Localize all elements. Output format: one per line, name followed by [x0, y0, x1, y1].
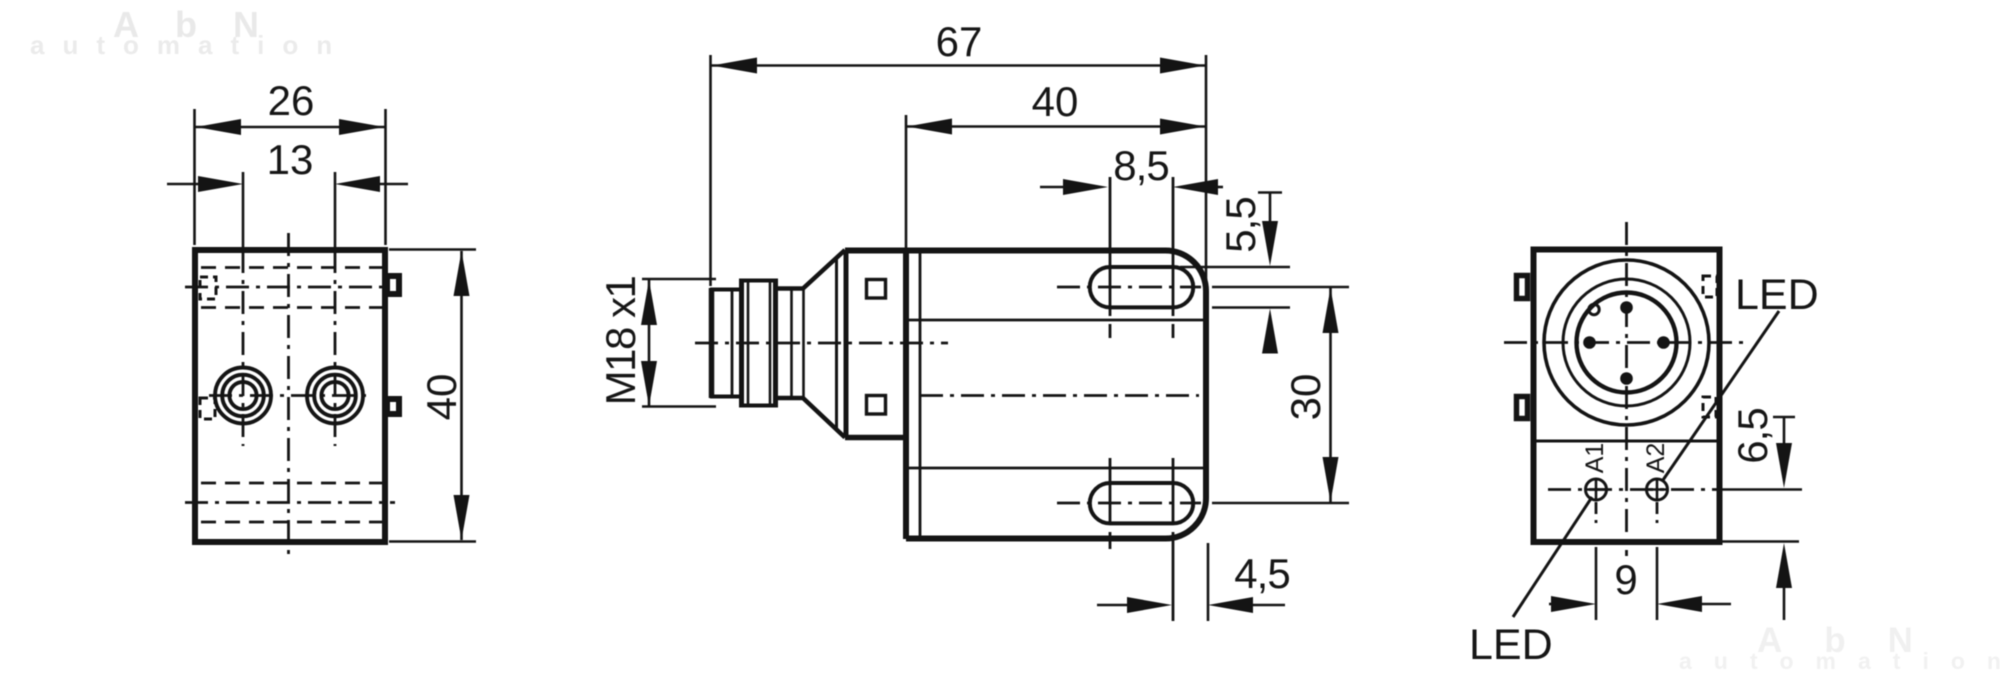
- rear view divider line: [1536, 440, 1717, 443]
- dimension 6,5: [1722, 408, 1799, 620]
- svg-text:5,5: 5,5: [1217, 197, 1264, 252]
- plate square hole lower: [867, 396, 886, 415]
- dimension 30: [1212, 287, 1349, 503]
- dimension 9: [1549, 547, 1731, 620]
- watermark top-left AbN: [30, 4, 350, 60]
- connector pins: [1583, 301, 1670, 385]
- dimension 13: [167, 136, 408, 192]
- top slot horizontal centerline: [1057, 286, 1201, 289]
- rear view tab upper-left: [1517, 276, 1528, 299]
- dimension 40 front view: [389, 250, 476, 542]
- M18 axis centerline: [695, 342, 948, 345]
- svg-text:LED: LED: [1469, 621, 1553, 669]
- main body inner vertical line: [919, 253, 922, 536]
- svg-text:40: 40: [418, 374, 465, 421]
- svg-text:A1: A1: [1581, 443, 1609, 474]
- front view right hole centerline vertical: [334, 172, 337, 250]
- main body feature line lower: [909, 467, 1204, 470]
- plate square hole upper: [867, 280, 886, 299]
- connector thread section: [739, 280, 778, 406]
- front view body outline: [195, 250, 385, 542]
- dimension M18 x1: [597, 276, 716, 406]
- svg-text:26: 26: [268, 77, 315, 124]
- dimension 26: [195, 77, 386, 245]
- svg-text:13: 13: [267, 136, 314, 183]
- LED pointer line A1: [1513, 497, 1592, 617]
- svg-text:M18 x1: M18 x1: [597, 276, 644, 405]
- front view hidden square hole lower-left: [200, 398, 215, 419]
- bottom mounting slot: [1090, 483, 1193, 523]
- front view vertical centerline: [287, 233, 290, 558]
- LED vertical centerlines: [1595, 502, 1598, 526]
- main body left edge: [903, 250, 909, 539]
- svg-text:LED: LED: [1735, 271, 1819, 319]
- front view right coil circles: [307, 368, 363, 424]
- front view hidden slot edge lines: [201, 268, 382, 523]
- connector keyway: [1589, 304, 1599, 314]
- rear view hidden square lower-right: [1703, 397, 1716, 417]
- front view left hole centerline vertical: [242, 172, 245, 250]
- svg-text:automation: automation: [30, 30, 350, 60]
- svg-text:A2: A2: [1642, 443, 1670, 474]
- dimension 5,5: [1180, 193, 1290, 354]
- top slot vertical centerlines: [1110, 177, 1173, 338]
- rear view horizontal centerline: [1504, 341, 1749, 344]
- connector plate bottom edge: [845, 435, 909, 441]
- svg-text:8,5: 8,5: [1113, 142, 1168, 189]
- svg-text:6,5: 6,5: [1729, 408, 1776, 463]
- rear connector circles: [1544, 260, 1709, 425]
- bottom slot vertical centerlines: [1110, 458, 1173, 621]
- front view left coil circles: [215, 368, 271, 424]
- front view mounting hole centerlines horizontal: [185, 286, 395, 289]
- connector face section: [710, 288, 741, 398]
- rear view vertical centerline: [1625, 222, 1628, 556]
- svg-text:9: 9: [1614, 556, 1637, 603]
- rear view hidden square upper-right: [1703, 276, 1717, 297]
- svg-text:automation: automation: [1679, 648, 2000, 674]
- svg-text:40: 40: [1032, 78, 1079, 125]
- rear view body outline: [1534, 250, 1720, 543]
- rear view tab lower-left: [1517, 397, 1528, 419]
- svg-text:30: 30: [1282, 374, 1329, 421]
- front view tab lower-right: [387, 399, 399, 414]
- front view sensing axis centerline horizontal: [209, 394, 371, 397]
- LED symbol A1: [1585, 479, 1607, 500]
- dimension 8,5: [1040, 142, 1223, 195]
- LED symbol A2: [1646, 479, 1668, 500]
- main body axis centerline: [920, 394, 1199, 397]
- connector plate edge: [844, 250, 849, 437]
- main body outline: [845, 250, 1206, 538]
- top mounting slot: [1090, 267, 1193, 307]
- watermark bottom-right AbN: [1679, 621, 2000, 674]
- svg-text:67: 67: [936, 18, 983, 65]
- connector neck and cone: [778, 250, 845, 438]
- svg-text:4,5: 4,5: [1234, 550, 1289, 597]
- LED pointer line A2: [1663, 311, 1779, 480]
- bottom slot horizontal centerline: [1057, 502, 1201, 505]
- front view tab upper-right: [387, 276, 399, 294]
- front view hidden square hole upper-left: [200, 277, 216, 299]
- LED axis centerline: [1548, 488, 1720, 491]
- dimension 4,5: [1097, 543, 1290, 621]
- main body feature line upper: [909, 319, 1204, 322]
- dimension 40 side view: [906, 78, 1205, 248]
- dimension 67: [711, 18, 1207, 290]
